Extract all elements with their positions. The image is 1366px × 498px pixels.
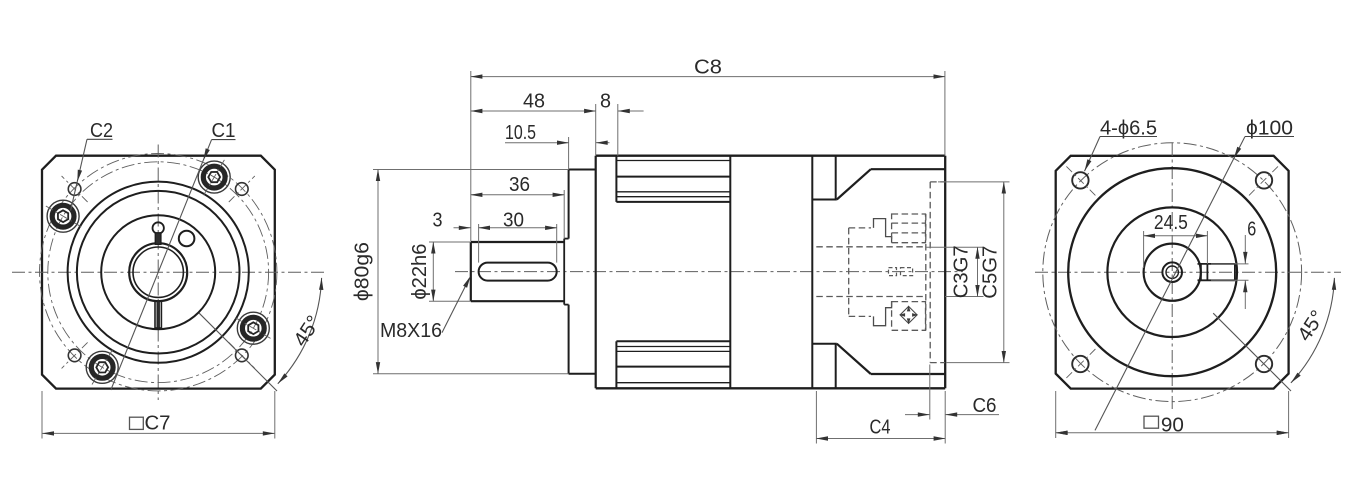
svg-text:C4: C4 [870,416,891,438]
svg-text:C3G7: C3G7 [951,245,973,298]
svg-text:6: 6 [1247,219,1256,241]
svg-text:24.5: 24.5 [1154,212,1188,234]
svg-text:8: 8 [600,91,611,113]
svg-text:30: 30 [503,210,524,232]
svg-text:C8: C8 [694,57,722,79]
svg-text:36: 36 [509,174,530,196]
svg-text:3: 3 [433,210,443,232]
svg-text:C5G7: C5G7 [980,246,1002,299]
svg-text:C7: C7 [145,413,171,435]
svg-text:C1: C1 [212,120,236,142]
svg-text:ϕ22h6: ϕ22h6 [409,244,431,300]
svg-text:C6: C6 [973,395,997,417]
svg-text:90: 90 [1161,414,1184,436]
svg-text:C2: C2 [90,120,113,142]
svg-text:10.5: 10.5 [505,122,536,144]
svg-text:ϕ80g6: ϕ80g6 [352,242,374,301]
svg-text:48: 48 [523,91,545,113]
svg-text:M8X16: M8X16 [380,320,442,342]
